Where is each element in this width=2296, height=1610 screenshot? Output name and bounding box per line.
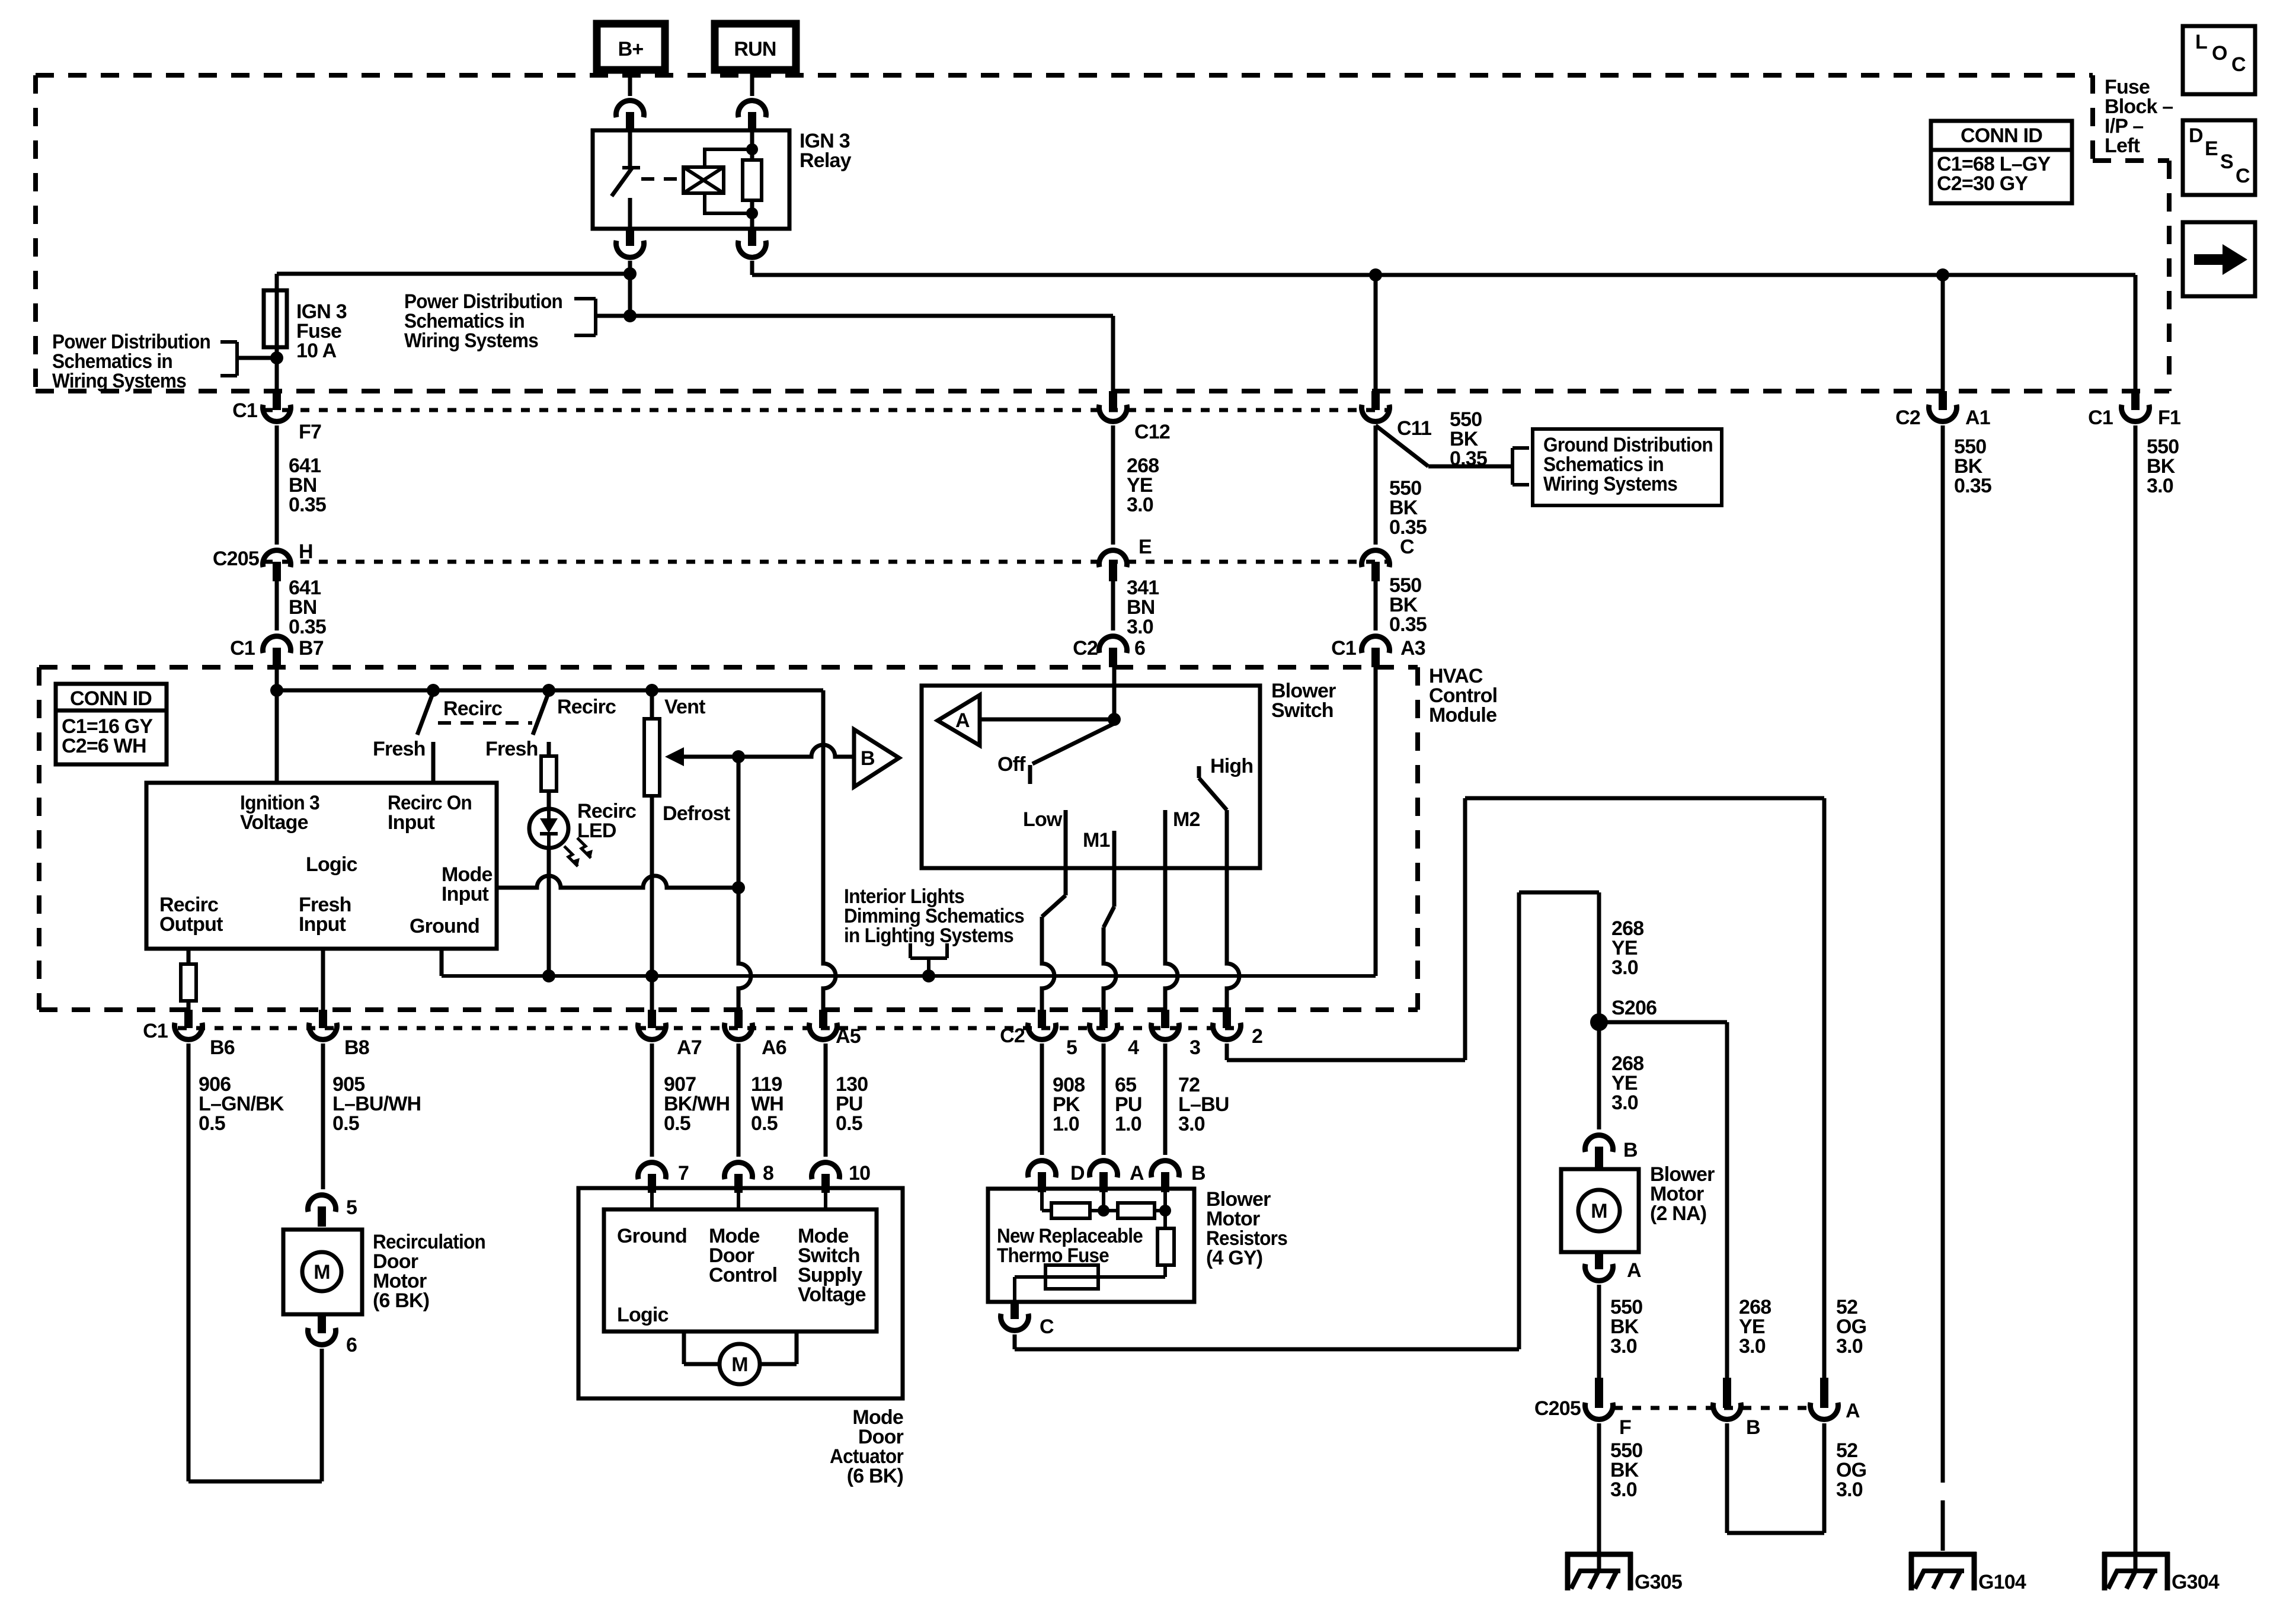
- svg-text:Input: Input: [299, 913, 346, 936]
- svg-text:5: 5: [1066, 1036, 1077, 1059]
- svg-text:H: H: [299, 540, 313, 563]
- svg-text:3.0: 3.0: [1611, 1092, 1638, 1114]
- svg-text:(6 BK): (6 BK): [847, 1465, 903, 1487]
- svg-text:A6: A6: [762, 1036, 786, 1059]
- svg-text:A: A: [1627, 1259, 1641, 1282]
- svg-text:C: C: [1040, 1315, 1054, 1338]
- svg-text:C: C: [2231, 53, 2246, 76]
- svg-text:0.35: 0.35: [1389, 613, 1427, 636]
- svg-text:B: B: [1746, 1416, 1760, 1439]
- svg-text:C2: C2: [1895, 406, 1920, 429]
- svg-text:High: High: [1210, 755, 1253, 777]
- svg-text:Input: Input: [388, 811, 435, 834]
- svg-text:0.5: 0.5: [751, 1112, 778, 1135]
- svg-text:C1: C1: [143, 1020, 168, 1042]
- svg-text:A7: A7: [677, 1036, 702, 1059]
- svg-text:3.0: 3.0: [1178, 1113, 1205, 1135]
- svg-text:3.0: 3.0: [1739, 1335, 1766, 1358]
- svg-text:Wiring Systems: Wiring Systems: [1543, 473, 1677, 495]
- svg-text:3.0: 3.0: [2147, 475, 2173, 497]
- svg-text:CONN ID: CONN ID: [1961, 124, 2042, 147]
- svg-text:C205: C205: [213, 548, 259, 570]
- svg-text:L: L: [2195, 31, 2207, 53]
- svg-text:3.0: 3.0: [1610, 1478, 1637, 1501]
- svg-text:Ground: Ground: [617, 1225, 687, 1247]
- svg-text:0.5: 0.5: [664, 1112, 690, 1135]
- svg-text:Relay: Relay: [800, 149, 852, 172]
- svg-text:Defrost: Defrost: [663, 802, 730, 825]
- svg-text:A: A: [1130, 1162, 1144, 1185]
- svg-text:D: D: [1070, 1162, 1085, 1185]
- svg-text:Wiring Systems: Wiring Systems: [52, 370, 186, 392]
- svg-text:(4 GY): (4 GY): [1206, 1247, 1262, 1269]
- svg-text:0.5: 0.5: [332, 1112, 359, 1135]
- svg-text:C2=30 GY: C2=30 GY: [1937, 172, 2028, 195]
- svg-text:3.0: 3.0: [1127, 616, 1153, 638]
- svg-text:Switch: Switch: [1271, 699, 1334, 722]
- svg-text:Voltage: Voltage: [798, 1283, 866, 1306]
- svg-text:10 A: 10 A: [296, 340, 337, 362]
- svg-text:B: B: [1623, 1139, 1638, 1161]
- svg-text:C2=6 WH: C2=6 WH: [62, 735, 146, 757]
- svg-text:0.35: 0.35: [1954, 475, 1991, 497]
- svg-text:0.5: 0.5: [836, 1112, 862, 1135]
- svg-text:B7: B7: [299, 637, 324, 660]
- svg-text:CONN ID: CONN ID: [70, 687, 152, 710]
- svg-text:E: E: [2205, 137, 2218, 160]
- svg-text:1.0: 1.0: [1115, 1113, 1141, 1135]
- svg-text:G304: G304: [2172, 1571, 2220, 1593]
- svg-text:10: 10: [849, 1162, 870, 1185]
- svg-text:3.0: 3.0: [1610, 1335, 1637, 1358]
- svg-text:7: 7: [678, 1162, 689, 1185]
- svg-text:S206: S206: [1611, 997, 1657, 1019]
- svg-text:8: 8: [763, 1162, 773, 1185]
- svg-text:RUN: RUN: [734, 38, 776, 60]
- svg-text:0.35: 0.35: [289, 616, 326, 638]
- svg-text:A5: A5: [836, 1025, 861, 1048]
- svg-text:6: 6: [346, 1334, 357, 1356]
- svg-text:B: B: [861, 747, 875, 770]
- svg-text:in Lighting Systems: in Lighting Systems: [844, 924, 1013, 947]
- svg-text:M: M: [1591, 1200, 1607, 1222]
- svg-text:Wiring Systems: Wiring Systems: [404, 329, 538, 352]
- svg-text:C2: C2: [1073, 637, 1098, 660]
- svg-text:O: O: [2212, 42, 2227, 65]
- svg-text:Ground: Ground: [410, 915, 479, 937]
- svg-text:F1: F1: [2158, 406, 2180, 429]
- svg-text:Vent: Vent: [664, 696, 705, 718]
- svg-text:C2: C2: [1000, 1025, 1025, 1047]
- svg-text:D: D: [2189, 124, 2203, 147]
- svg-text:Recirc: Recirc: [557, 696, 616, 718]
- svg-text:C: C: [1400, 536, 1414, 558]
- svg-text:F: F: [1619, 1416, 1631, 1439]
- svg-text:Low: Low: [1023, 808, 1063, 831]
- svg-text:3: 3: [1189, 1036, 1200, 1059]
- svg-text:Logic: Logic: [306, 853, 357, 876]
- svg-text:Logic: Logic: [617, 1304, 669, 1326]
- svg-text:LED: LED: [577, 820, 616, 842]
- svg-text:Module: Module: [1429, 704, 1496, 726]
- svg-text:0.35: 0.35: [289, 494, 326, 516]
- svg-text:A: A: [955, 709, 970, 732]
- svg-text:6: 6: [1134, 637, 1145, 660]
- svg-text:B8: B8: [344, 1036, 369, 1059]
- svg-text:M1: M1: [1083, 829, 1110, 852]
- svg-text:5: 5: [346, 1196, 357, 1219]
- svg-text:C1: C1: [230, 637, 255, 660]
- svg-text:3.0: 3.0: [1127, 494, 1153, 516]
- svg-text:C1: C1: [1331, 637, 1356, 660]
- svg-text:B: B: [1191, 1162, 1205, 1185]
- svg-text:Output: Output: [159, 913, 223, 936]
- svg-text:Off: Off: [997, 753, 1026, 776]
- svg-text:Recirc: Recirc: [443, 697, 502, 720]
- svg-text:4: 4: [1128, 1036, 1139, 1059]
- svg-text:Control: Control: [709, 1264, 777, 1286]
- svg-text:C: C: [2236, 165, 2250, 187]
- svg-text:G104: G104: [1978, 1571, 2026, 1593]
- svg-text:F7: F7: [299, 421, 321, 443]
- svg-text:E: E: [1139, 536, 1152, 558]
- svg-text:Fresh: Fresh: [373, 738, 426, 760]
- svg-text:3.0: 3.0: [1836, 1335, 1863, 1358]
- svg-text:A1: A1: [1965, 406, 1990, 429]
- svg-text:C1: C1: [232, 399, 257, 422]
- svg-text:A3: A3: [1400, 637, 1425, 660]
- svg-text:C1: C1: [2088, 406, 2113, 429]
- svg-text:A: A: [1846, 1400, 1860, 1422]
- svg-text:M: M: [731, 1353, 748, 1376]
- svg-text:Fresh: Fresh: [485, 738, 538, 760]
- svg-text:Input: Input: [442, 883, 489, 905]
- svg-text:3.0: 3.0: [1611, 956, 1638, 979]
- svg-text:1.0: 1.0: [1053, 1113, 1079, 1135]
- svg-text:Left: Left: [2105, 135, 2140, 157]
- svg-text:G305: G305: [1635, 1571, 1682, 1593]
- svg-text:(6 BK): (6 BK): [373, 1289, 429, 1312]
- svg-text:M: M: [314, 1261, 330, 1283]
- svg-text:B6: B6: [210, 1036, 235, 1059]
- svg-text:M2: M2: [1173, 808, 1200, 831]
- svg-text:Voltage: Voltage: [240, 811, 308, 834]
- svg-text:C11: C11: [1397, 417, 1431, 440]
- svg-text:C12: C12: [1134, 421, 1170, 443]
- svg-text:C205: C205: [1534, 1397, 1581, 1420]
- svg-text:0.5: 0.5: [199, 1112, 225, 1135]
- svg-text:2: 2: [1252, 1025, 1262, 1048]
- svg-text:B+: B+: [618, 38, 644, 60]
- svg-text:(2 NA): (2 NA): [1650, 1202, 1706, 1225]
- svg-text:S: S: [2220, 151, 2233, 173]
- svg-text:Thermo Fuse: Thermo Fuse: [997, 1244, 1109, 1267]
- svg-text:3.0: 3.0: [1836, 1478, 1863, 1501]
